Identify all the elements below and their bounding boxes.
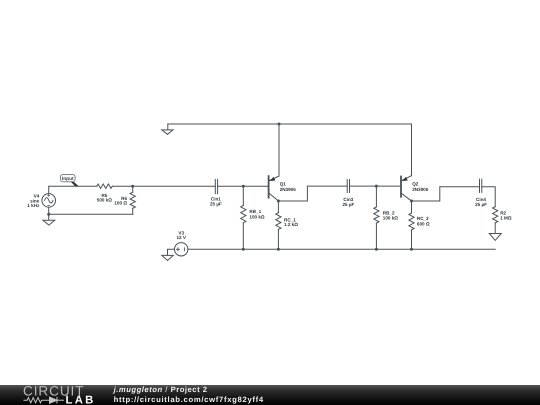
wire top supply rail <box>168 123 412 125</box>
node RC_1 bottom <box>277 248 280 251</box>
label Q2 2N3906 <box>412 182 429 193</box>
wire Q1 collector to Cin3 <box>278 186 347 201</box>
capacitor Cin4 <box>480 179 482 192</box>
svg-text:12 V: 12 V <box>176 235 186 240</box>
source V3 (12 V DC) <box>175 243 188 256</box>
svg-text:1 kHz: 1 kHz <box>27 203 40 208</box>
wire Q1 emitter to rail <box>278 124 280 176</box>
svg-text:j.muggleton / Project 2: j.muggleton / Project 2 <box>113 385 208 394</box>
resistor RC_1 <box>276 201 281 249</box>
transistor Q1 (2N3906) <box>269 176 279 201</box>
svg-text:LAB: LAB <box>66 395 96 405</box>
capacitor Cin1 <box>215 179 217 193</box>
node flag Input <box>61 174 79 186</box>
label Cin1 25 µF <box>210 197 222 207</box>
transistor Q2 (2N3906) <box>401 176 412 201</box>
node RB_2 top junction <box>375 185 378 188</box>
label V3 12 V <box>176 231 186 241</box>
ground (top-left of rail) <box>162 124 173 134</box>
resistor RB_2 <box>374 186 379 249</box>
ground (left of V3) <box>162 255 173 260</box>
wire R5 to Cin1 <box>112 185 215 187</box>
svg-text:Q1: Q1 <box>280 181 287 186</box>
node RB_2 bottom <box>375 248 378 251</box>
svg-text:25 µF: 25 µF <box>475 202 487 207</box>
capacitor Cin3 <box>347 180 349 193</box>
svg-text:25 µF: 25 µF <box>342 202 354 207</box>
ground (below V4) <box>43 214 55 225</box>
wire Q2 collector to Cin4 <box>412 187 480 201</box>
svg-text:2N3906: 2N3906 <box>412 187 429 192</box>
label Q1 2N3906 <box>280 181 297 191</box>
resistor R6 <box>130 186 135 214</box>
svg-text:Input: Input <box>62 176 74 182</box>
label Cin3 25 µF <box>342 197 354 207</box>
svg-text:600 Ω: 600 Ω <box>417 221 430 226</box>
svg-text:100 kΩ: 100 kΩ <box>249 214 264 219</box>
node R5/R6 junction <box>131 185 134 188</box>
svg-text:25 µF: 25 µF <box>210 201 222 206</box>
resistor R5 <box>97 184 113 188</box>
label R6 100 Ω <box>114 196 127 206</box>
label R2 1 MΩ <box>500 210 512 220</box>
resistor RC_2 <box>409 201 414 249</box>
svg-text:1 MΩ: 1 MΩ <box>500 216 512 221</box>
svg-text:100 kΩ: 100 kΩ <box>383 216 398 221</box>
node RB_1 top junction <box>242 185 245 188</box>
label RC_1 1.2 kΩ <box>284 217 298 227</box>
svg-text:500 kΩ: 500 kΩ <box>97 198 112 203</box>
wire V4 top to R5 <box>49 186 97 193</box>
svg-text:Q2: Q2 <box>412 182 419 187</box>
label Cin4 25 µF <box>475 197 487 207</box>
label RB_2 100 kΩ <box>383 210 398 220</box>
wire Cin1 to Q1 base <box>218 185 269 187</box>
label R5 500 kΩ <box>97 193 112 203</box>
node Q2 collector junction <box>410 200 413 203</box>
resistor R2 <box>493 207 498 234</box>
node RC_2 bottom <box>410 248 413 251</box>
svg-text:2N3906: 2N3906 <box>280 187 297 192</box>
label RC_2 600 Ω <box>417 216 430 226</box>
wire bottom supply rail <box>188 248 495 250</box>
label RB_1 100 kΩ <box>249 209 264 219</box>
svg-text:1.2 kΩ: 1.2 kΩ <box>284 222 298 227</box>
node V4 bottom junction <box>47 213 50 216</box>
wire Q2 emitter to rail <box>411 124 413 176</box>
wire Cin3 to Q2 base <box>350 185 402 187</box>
wire V3 left to ground <box>168 249 175 255</box>
label V4 <box>27 194 40 208</box>
resistor RB_1 <box>241 186 246 249</box>
svg-text:http://circuitlab.com/cwf7fxg8: http://circuitlab.com/cwf7fxg82yff4 <box>114 395 264 404</box>
node RB_1 bottom <box>242 248 245 251</box>
source V4 (sine 1 kHz) <box>42 194 56 208</box>
wire V4 bottom loop <box>49 207 133 214</box>
logo motif (resistor + diode) <box>24 397 65 404</box>
svg-text:100 Ω: 100 Ω <box>114 201 127 206</box>
wire Cin4 to R2 <box>482 187 495 207</box>
node top rail junction <box>278 123 281 126</box>
ground (below R2) <box>489 234 501 241</box>
node Q1 collector junction <box>277 200 280 203</box>
